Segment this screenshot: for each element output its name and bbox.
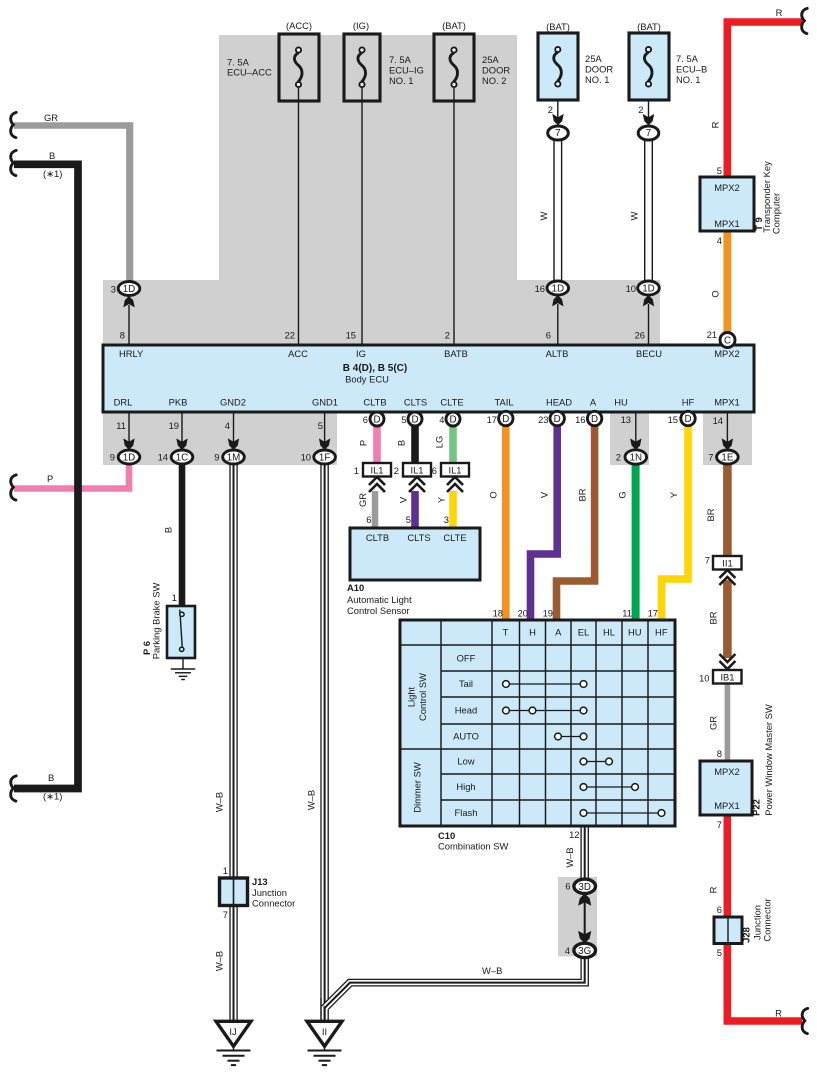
svg-text:1N: 1N: [630, 453, 643, 464]
svg-text:7: 7: [555, 128, 560, 139]
svg-text:4: 4: [717, 235, 722, 246]
svg-text:13: 13: [621, 414, 631, 425]
svg-text:(BAT): (BAT): [637, 21, 661, 32]
svg-text:14: 14: [713, 415, 723, 426]
svg-text:5: 5: [401, 414, 406, 425]
svg-text:MPX1: MPX1: [714, 218, 740, 229]
svg-text:DOOR: DOOR: [585, 64, 613, 75]
svg-text:5: 5: [406, 514, 411, 525]
svg-text:Power Window Master SW: Power Window Master SW: [763, 704, 774, 816]
svg-text:(∗1): (∗1): [43, 168, 62, 179]
svg-text:3: 3: [111, 284, 116, 295]
svg-text:Y: Y: [436, 496, 447, 503]
svg-text:HF: HF: [682, 397, 695, 408]
svg-text:TAIL: TAIL: [494, 397, 513, 408]
svg-text:HEAD: HEAD: [546, 397, 572, 408]
svg-text:V: V: [539, 491, 550, 498]
svg-text:EL: EL: [578, 627, 589, 638]
svg-text:1C: 1C: [176, 453, 189, 464]
svg-text:7: 7: [717, 819, 722, 830]
svg-text:Connector: Connector: [252, 898, 295, 909]
svg-text:14: 14: [158, 452, 168, 463]
svg-text:8: 8: [120, 330, 125, 341]
svg-text:Automatic Light: Automatic Light: [347, 594, 412, 605]
svg-text:2: 2: [445, 330, 450, 341]
svg-text:Light: Light: [406, 686, 417, 707]
svg-text:Connector: Connector: [762, 898, 773, 941]
svg-text:3: 3: [444, 514, 449, 525]
svg-text:12: 12: [569, 829, 579, 840]
svg-text:ACC: ACC: [288, 348, 308, 359]
svg-text:Combination SW: Combination SW: [438, 841, 508, 852]
svg-text:1: 1: [223, 865, 228, 876]
svg-text:IG: IG: [356, 348, 366, 359]
svg-text:D: D: [554, 414, 561, 425]
svg-text:W–B: W–B: [214, 792, 225, 812]
svg-text:LG: LG: [434, 436, 445, 449]
svg-text:R: R: [708, 886, 719, 893]
svg-text:T: T: [503, 627, 509, 638]
svg-text:4: 4: [439, 414, 444, 425]
svg-text:II1: II1: [722, 558, 732, 569]
svg-text:NO. 2: NO. 2: [482, 75, 507, 86]
svg-text:5: 5: [717, 165, 722, 176]
svg-text:1D: 1D: [123, 453, 136, 464]
svg-text:PKB: PKB: [169, 397, 188, 408]
svg-text:GND1: GND1: [312, 397, 338, 408]
svg-text:5: 5: [717, 947, 722, 958]
svg-text:High: High: [456, 781, 475, 792]
svg-text:MPX2: MPX2: [714, 348, 740, 359]
svg-text:11: 11: [622, 608, 632, 619]
svg-text:1D: 1D: [552, 284, 565, 295]
svg-text:11: 11: [116, 420, 126, 431]
svg-text:4: 4: [225, 420, 230, 431]
svg-text:CLTE: CLTE: [440, 397, 463, 408]
svg-text:BATB: BATB: [444, 348, 468, 359]
svg-text:D: D: [502, 414, 509, 425]
svg-text:MPX2: MPX2: [714, 182, 740, 193]
svg-text:25A: 25A: [482, 54, 499, 65]
svg-text:1D: 1D: [642, 284, 655, 295]
svg-text:10: 10: [699, 673, 709, 684]
svg-text:O: O: [710, 290, 721, 297]
svg-text:GR: GR: [44, 112, 58, 123]
svg-text:P: P: [47, 473, 53, 484]
svg-text:21: 21: [707, 329, 717, 340]
svg-text:IL1: IL1: [410, 465, 423, 476]
svg-text:J13: J13: [252, 876, 268, 887]
svg-text:D: D: [449, 415, 456, 426]
svg-text:(∗1): (∗1): [43, 791, 62, 802]
svg-text:1: 1: [172, 592, 177, 603]
svg-text:P 6: P 6: [141, 641, 152, 655]
svg-text:1: 1: [354, 465, 359, 476]
svg-text:GR: GR: [708, 716, 719, 730]
svg-text:20: 20: [518, 608, 528, 619]
svg-text:7: 7: [705, 555, 710, 566]
svg-text:9: 9: [110, 452, 115, 463]
svg-text:IL1: IL1: [448, 465, 461, 476]
svg-text:ECU–ACC: ECU–ACC: [227, 67, 272, 78]
svg-text:B: B: [163, 527, 174, 533]
svg-text:P22: P22: [751, 799, 762, 816]
svg-text:BR: BR: [577, 488, 588, 501]
svg-text:Parking Brake SW: Parking Brake SW: [151, 583, 162, 660]
svg-text:HRLY: HRLY: [119, 348, 144, 359]
svg-text:O: O: [488, 491, 499, 498]
svg-text:Dimmer SW: Dimmer SW: [412, 762, 423, 813]
svg-text:IB1: IB1: [720, 672, 734, 683]
svg-text:W–B: W–B: [482, 965, 502, 976]
svg-text:P: P: [358, 440, 369, 446]
svg-text:II: II: [322, 1026, 327, 1037]
svg-text:DRL: DRL: [114, 397, 133, 408]
svg-text:IL1: IL1: [370, 465, 383, 476]
svg-text:6: 6: [717, 904, 722, 915]
svg-text:CLTB: CLTB: [366, 532, 389, 543]
svg-text:GR: GR: [357, 493, 368, 507]
svg-text:(BAT): (BAT): [546, 21, 570, 32]
svg-text:1E: 1E: [721, 453, 733, 464]
svg-text:R: R: [775, 1008, 782, 1019]
svg-text:DOOR: DOOR: [482, 65, 510, 76]
svg-text:C10: C10: [438, 830, 455, 841]
svg-text:W–B: W–B: [214, 951, 225, 971]
svg-text:D: D: [373, 415, 380, 426]
svg-text:Body ECU: Body ECU: [345, 374, 389, 385]
svg-text:CLTE: CLTE: [443, 532, 466, 543]
svg-text:9: 9: [214, 452, 219, 463]
svg-text:J28: J28: [741, 927, 752, 943]
svg-text:7. 5A: 7. 5A: [389, 54, 412, 65]
svg-text:(ACC): (ACC): [286, 20, 312, 31]
svg-text:CLTB: CLTB: [363, 397, 386, 408]
svg-text:25A: 25A: [585, 53, 602, 64]
svg-text:1F: 1F: [319, 453, 330, 464]
svg-text:Control SW: Control SW: [417, 673, 428, 721]
svg-text:23: 23: [538, 414, 548, 425]
svg-text:6: 6: [366, 514, 371, 525]
svg-text:B: B: [48, 772, 54, 783]
svg-text:ECU–B: ECU–B: [676, 64, 707, 75]
svg-text:D: D: [591, 414, 598, 425]
svg-text:V: V: [398, 496, 409, 503]
svg-text:(BAT): (BAT): [442, 20, 466, 31]
svg-text:Low: Low: [457, 756, 474, 767]
svg-text:MPX2: MPX2: [714, 766, 740, 777]
svg-text:W–B: W–B: [564, 847, 575, 867]
svg-text:B 4(D), B 5(C): B 4(D), B 5(C): [343, 363, 407, 374]
svg-text:7. 5A: 7. 5A: [676, 53, 699, 64]
svg-text:10: 10: [626, 283, 636, 294]
svg-text:Junction: Junction: [252, 887, 287, 898]
svg-text:4: 4: [565, 945, 570, 956]
svg-text:19: 19: [543, 608, 553, 619]
svg-text:22: 22: [285, 330, 295, 341]
svg-text:NO. 1: NO. 1: [585, 74, 610, 85]
svg-text:A10: A10: [347, 582, 364, 593]
svg-text:7: 7: [708, 452, 713, 463]
svg-text:GND2: GND2: [220, 397, 246, 408]
svg-text:16: 16: [535, 283, 545, 294]
svg-text:A: A: [555, 627, 562, 638]
svg-text:OFF: OFF: [457, 653, 476, 664]
svg-text:(IG): (IG): [353, 20, 369, 31]
svg-text:Control Sensor: Control Sensor: [347, 605, 410, 616]
svg-text:Tail: Tail: [459, 678, 473, 689]
svg-text:6: 6: [363, 414, 368, 425]
svg-text:R: R: [710, 121, 721, 128]
svg-text:HF: HF: [655, 627, 668, 638]
svg-text:15: 15: [668, 414, 678, 425]
svg-text:ECU–IG: ECU–IG: [389, 65, 424, 76]
svg-text:B: B: [396, 440, 407, 446]
svg-text:19: 19: [169, 420, 179, 431]
svg-text:2: 2: [616, 452, 621, 463]
svg-text:AUTO: AUTO: [453, 731, 479, 742]
svg-text:HU: HU: [614, 397, 628, 408]
svg-text:26: 26: [635, 330, 645, 341]
svg-text:18: 18: [493, 608, 503, 619]
svg-text:2: 2: [638, 104, 643, 115]
svg-text:NO. 1: NO. 1: [389, 75, 414, 86]
svg-text:G: G: [617, 491, 628, 498]
svg-text:Flash: Flash: [455, 807, 478, 818]
svg-text:MPX1: MPX1: [714, 800, 740, 811]
svg-text:CLTS: CLTS: [404, 397, 427, 408]
svg-text:BR: BR: [705, 508, 716, 521]
svg-text:C: C: [724, 336, 731, 347]
svg-text:BECU: BECU: [636, 348, 662, 359]
svg-text:W–B: W–B: [306, 790, 317, 810]
svg-text:2: 2: [548, 104, 553, 115]
svg-text:Y: Y: [668, 491, 679, 498]
svg-text:B: B: [49, 150, 55, 161]
svg-text:HL: HL: [603, 627, 615, 638]
svg-text:BR: BR: [708, 611, 719, 624]
svg-text:2: 2: [394, 465, 399, 476]
svg-text:Head: Head: [455, 705, 477, 716]
svg-text:6: 6: [565, 881, 570, 892]
svg-text:ALTB: ALTB: [546, 348, 569, 359]
svg-text:CLTS: CLTS: [407, 532, 430, 543]
svg-text:MPX1: MPX1: [714, 397, 740, 408]
svg-text:7: 7: [646, 128, 651, 139]
svg-text:IJ: IJ: [229, 1026, 236, 1037]
svg-text:1D: 1D: [123, 284, 136, 295]
svg-text:T 9: T 9: [753, 217, 764, 231]
svg-text:5: 5: [318, 420, 323, 431]
svg-text:17: 17: [648, 608, 658, 619]
svg-text:10: 10: [301, 452, 311, 463]
svg-text:16: 16: [575, 414, 585, 425]
svg-text:HU: HU: [628, 627, 642, 638]
svg-text:17: 17: [487, 414, 497, 425]
svg-text:D: D: [684, 414, 691, 425]
svg-text:D: D: [411, 415, 418, 426]
svg-text:W: W: [538, 211, 549, 220]
svg-text:NO. 1: NO. 1: [676, 74, 701, 85]
svg-text:1M: 1M: [227, 453, 241, 464]
svg-text:15: 15: [346, 330, 356, 341]
svg-text:3G: 3G: [578, 946, 591, 957]
svg-text:8: 8: [717, 748, 722, 759]
svg-text:R: R: [776, 7, 783, 18]
svg-text:7: 7: [223, 909, 228, 920]
svg-text:W: W: [629, 211, 640, 220]
svg-text:6: 6: [546, 330, 551, 341]
svg-text:A: A: [590, 397, 597, 408]
svg-text:3D: 3D: [578, 882, 591, 893]
svg-text:H: H: [529, 627, 536, 638]
svg-text:6: 6: [432, 465, 437, 476]
svg-text:Computer: Computer: [771, 193, 782, 234]
